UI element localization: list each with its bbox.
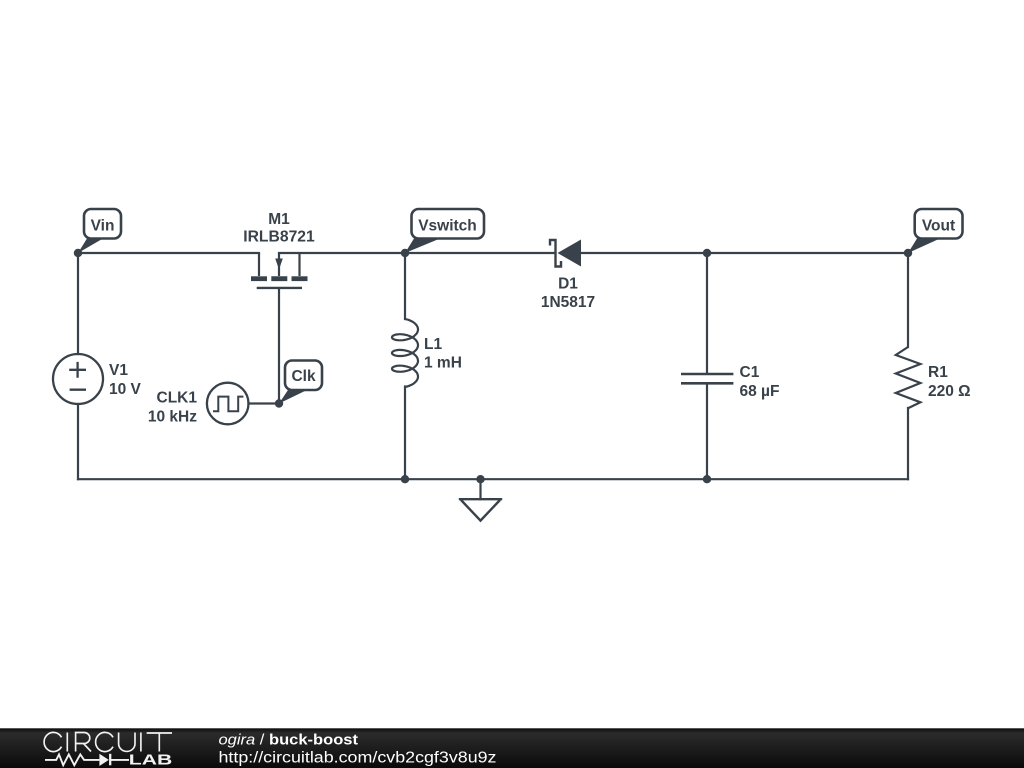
logo resistor-diode line (45, 754, 129, 766)
svg-text:10 kHz: 10 kHz (148, 409, 197, 426)
svg-text:IRLB8721: IRLB8721 (243, 229, 315, 246)
resistor R1 (896, 347, 921, 408)
svg-text:C1: C1 (740, 364, 760, 381)
svg-text:CLK1: CLK1 (157, 390, 198, 407)
svg-text:L1: L1 (424, 336, 442, 353)
wire top rail right (D1 anode to Vout) (581, 252, 908, 254)
label C1 value (740, 364, 780, 400)
wire R1 top (907, 253, 909, 347)
label R1 value (928, 364, 971, 400)
wire top rail middle (M1 source to D1 cathode) (279, 252, 554, 254)
label CLK1 value (148, 390, 197, 426)
label M1 (243, 211, 315, 246)
svg-text:10 V: 10 V (109, 381, 142, 398)
svg-text:ogira / buck-boost: ogira / buck-boost (219, 732, 359, 749)
capacitor C1 (681, 374, 733, 383)
wire gate stem M1 to Clk node (278, 289, 280, 404)
svg-text:http://circuitlab.com/cvb2cgf3: http://circuitlab.com/cvb2cgf3v8u9z (219, 750, 497, 767)
footer bar (0, 728, 1024, 768)
svg-text:V1: V1 (109, 362, 128, 379)
wire bottom rail (78, 478, 908, 480)
diode D1 (schottky) (550, 240, 581, 267)
transistor M1 (NMOS) (251, 253, 308, 288)
svg-text:Vin: Vin (91, 218, 115, 235)
wire top rail left (Vin to M1 drain) (78, 252, 259, 254)
inductor L1 (392, 319, 418, 387)
wire R1 bottom (907, 408, 909, 479)
svg-text:Clk: Clk (291, 368, 316, 385)
svg-text:68 µF: 68 µF (740, 383, 780, 400)
label V1 value (109, 362, 142, 398)
svg-text:R1: R1 (928, 364, 948, 381)
svg-text:LAB: LAB (129, 752, 173, 768)
node junction ground (476, 475, 484, 483)
clock source CLK1 (207, 383, 249, 425)
node Clk (275, 361, 322, 408)
wire L1 bottom (404, 387, 406, 480)
label D1 value (541, 276, 595, 312)
wire ground stem (479, 479, 481, 499)
wire V1 top (77, 253, 79, 354)
node Vin (74, 209, 121, 257)
svg-text:Vout: Vout (922, 218, 955, 235)
svg-text:M1: M1 (268, 211, 290, 228)
logo CIRCUIT wordmark (44, 732, 172, 751)
node Vout (904, 209, 963, 257)
node junction L1 bottom (401, 475, 409, 483)
node junction C1 bottom (703, 475, 711, 483)
wire V1 bottom (77, 404, 79, 479)
svg-text:1 mH: 1 mH (424, 355, 462, 372)
svg-text:Vswitch: Vswitch (418, 218, 477, 235)
node Vswitch (401, 209, 484, 257)
wire C1 bottom (706, 384, 708, 479)
svg-text:220 Ω: 220 Ω (928, 383, 971, 400)
voltage source V1 (53, 354, 103, 404)
svg-text:D1: D1 (558, 276, 578, 293)
wire CLK1 output (249, 402, 280, 404)
logo diode triangle (99, 754, 108, 766)
label L1 value (424, 336, 462, 372)
ground (459, 499, 502, 520)
wire C1 top (706, 253, 708, 373)
svg-text:1N5817: 1N5817 (541, 294, 595, 311)
M1 arrow (275, 259, 283, 270)
wire L1 top (404, 253, 406, 319)
node junction C1 top (703, 249, 711, 257)
